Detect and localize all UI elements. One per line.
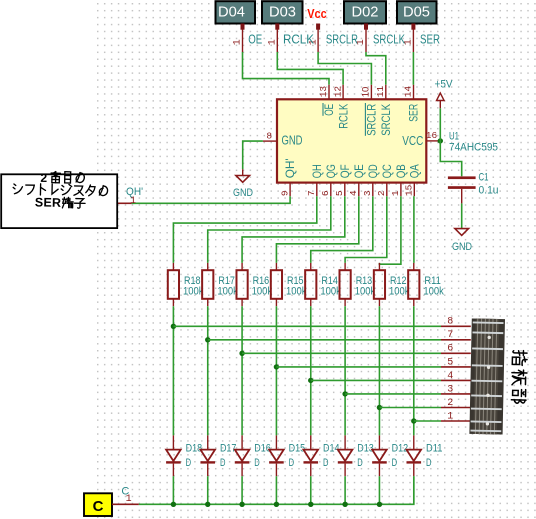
svg-text:QG: QG — [324, 164, 338, 178]
svg-text:GND: GND — [233, 187, 253, 199]
svg-text:D03: D03 — [269, 4, 296, 20]
svg-text:10: 10 — [361, 87, 372, 98]
svg-text:RCLK: RCLK — [336, 104, 350, 129]
svg-text:QA: QA — [407, 164, 421, 178]
svg-text:100k: 100k — [252, 285, 273, 297]
svg-text:D05: D05 — [403, 4, 430, 20]
svg-text:D15: D15 — [289, 443, 306, 455]
svg-text:6: 6 — [447, 344, 453, 355]
svg-text:D04: D04 — [218, 4, 245, 20]
svg-text:2: 2 — [40, 171, 47, 185]
svg-text:SER: SER — [420, 32, 440, 47]
svg-text:5: 5 — [334, 190, 345, 196]
svg-text:100k: 100k — [320, 285, 341, 297]
svg-text:100k: 100k — [355, 285, 376, 297]
svg-text:D14: D14 — [323, 443, 340, 455]
svg-text:D11: D11 — [426, 443, 443, 455]
svg-text:3: 3 — [362, 190, 373, 196]
svg-text:QF: QF — [338, 164, 352, 178]
svg-text:C1: C1 — [479, 171, 489, 183]
svg-text:QC: QC — [380, 164, 394, 178]
svg-text:100k: 100k — [217, 285, 238, 297]
svg-text:8: 8 — [447, 317, 453, 328]
svg-text:QE: QE — [352, 164, 366, 178]
svg-text:0.1u: 0.1u — [479, 184, 499, 196]
svg-text:GND: GND — [282, 133, 303, 148]
svg-text:1: 1 — [268, 39, 279, 45]
svg-text:3: 3 — [447, 384, 453, 395]
svg-text:9: 9 — [279, 190, 290, 196]
svg-text:1: 1 — [130, 196, 136, 207]
svg-text:D02: D02 — [352, 4, 379, 20]
svg-text:+5V: +5V — [435, 79, 454, 91]
svg-text:2: 2 — [376, 190, 387, 196]
svg-text:D17: D17 — [220, 443, 237, 455]
svg-text:D12: D12 — [392, 443, 409, 455]
svg-text:D: D — [392, 457, 398, 469]
svg-text:SRCLK: SRCLK — [379, 104, 393, 136]
svg-text:4: 4 — [447, 371, 453, 382]
svg-text:SRCLR: SRCLR — [326, 32, 358, 47]
svg-text:5: 5 — [447, 357, 453, 368]
svg-text:11: 11 — [375, 86, 386, 98]
svg-text:SER: SER — [407, 104, 421, 122]
svg-text:QH': QH' — [283, 158, 297, 178]
svg-text:16: 16 — [426, 130, 438, 141]
svg-text:GND: GND — [452, 241, 472, 253]
svg-text:13: 13 — [318, 86, 329, 98]
svg-text:C: C — [93, 498, 104, 515]
svg-text:100k: 100k — [183, 285, 204, 297]
svg-text:D16: D16 — [254, 443, 271, 455]
svg-text:QD: QD — [366, 164, 380, 178]
svg-text:SRCLK: SRCLK — [373, 32, 405, 47]
svg-text:D: D — [254, 457, 260, 469]
svg-text:D13: D13 — [357, 443, 374, 455]
svg-text:VCC: VCC — [402, 133, 423, 148]
svg-text:7: 7 — [447, 330, 453, 341]
svg-text:100k: 100k — [423, 285, 444, 297]
svg-text:100k: 100k — [286, 285, 307, 297]
svg-text:D18: D18 — [186, 443, 203, 455]
svg-text:OE: OE — [248, 32, 262, 47]
svg-text:QB: QB — [394, 164, 408, 178]
svg-text:14: 14 — [403, 86, 414, 98]
svg-text:OE: OE — [322, 104, 336, 116]
svg-text:D: D — [323, 457, 329, 469]
svg-text:74AHC595: 74AHC595 — [449, 141, 498, 153]
svg-text:7: 7 — [306, 190, 317, 196]
svg-text:D: D — [357, 457, 363, 469]
svg-text:4: 4 — [348, 190, 359, 196]
svg-text:SRCLR: SRCLR — [365, 104, 379, 136]
svg-text:1: 1 — [233, 39, 244, 45]
svg-text:1: 1 — [390, 190, 401, 196]
svg-text:8: 8 — [266, 130, 272, 141]
svg-text:D: D — [220, 457, 226, 469]
svg-text:SER: SER — [35, 195, 62, 210]
svg-text:2: 2 — [447, 398, 453, 409]
svg-text:6: 6 — [320, 190, 331, 196]
svg-text:Vcc: Vcc — [307, 6, 327, 21]
svg-text:1: 1 — [126, 494, 132, 505]
svg-text:12: 12 — [332, 86, 343, 98]
svg-text:RCLK: RCLK — [283, 32, 314, 47]
svg-text:1: 1 — [404, 39, 415, 45]
svg-text:D: D — [186, 457, 192, 469]
svg-text:D: D — [426, 457, 432, 469]
svg-text:D: D — [289, 457, 295, 469]
svg-text:QH: QH — [310, 164, 324, 178]
svg-text:100k: 100k — [389, 285, 410, 297]
svg-text:1: 1 — [447, 411, 453, 422]
svg-text:15: 15 — [404, 184, 415, 196]
